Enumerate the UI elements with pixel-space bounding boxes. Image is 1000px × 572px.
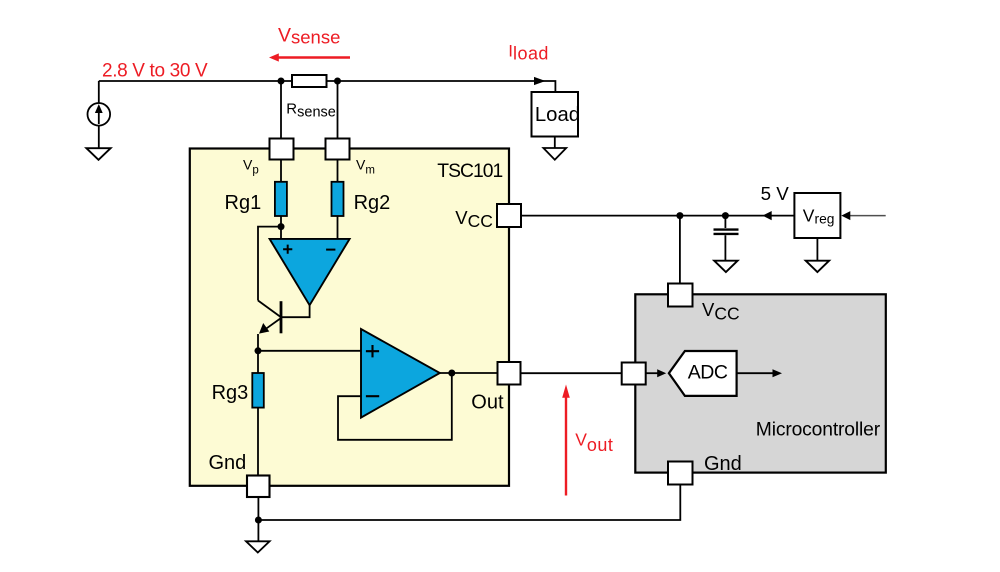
node C (Rg1 / feedback junction) <box>278 223 285 230</box>
svg-text:Vsense: Vsense <box>278 24 340 47</box>
arrow on VCC rail (left) <box>763 211 772 220</box>
wire: uC pin to ADC <box>646 372 659 374</box>
wire: left drop to current source <box>98 81 100 103</box>
wire: node D to op-amp U2 + input <box>258 350 361 352</box>
pin Vm <box>326 139 350 160</box>
microcontroller body <box>635 294 886 472</box>
TSC101 package body <box>190 149 509 486</box>
resistor Rg3 <box>252 373 263 408</box>
svg-text:VCC: VCC <box>702 299 740 323</box>
svg-text:Iload: Iload <box>508 41 549 63</box>
wire: node C jog left and down to transistor <box>258 227 281 301</box>
pin Out <box>498 362 521 385</box>
ground (capacitor) <box>714 261 737 272</box>
svg-text:2.8 V to 30 V: 2.8 V to 30 V <box>102 61 208 82</box>
wire: load to ground <box>554 137 556 149</box>
wire: Rg3 to Gnd pin <box>257 408 259 476</box>
capacitor C1 <box>714 216 739 261</box>
wire: ground bus <box>258 484 680 520</box>
svg-text:Microcontroller: Microcontroller <box>756 420 881 441</box>
svg-text:VCC: VCC <box>455 207 493 231</box>
pin Vp <box>270 139 294 160</box>
wire: input into Vreg from right <box>850 215 886 217</box>
node A (rail / Rsense left) <box>278 78 285 85</box>
wire: VCC rail to Vreg <box>521 215 794 217</box>
node G (VCC / cap branch) <box>722 212 729 219</box>
resistor Rg1 <box>275 182 287 216</box>
node D (Rg3 junction) <box>255 347 262 354</box>
ground (current source) <box>86 148 110 160</box>
svg-text:Load: Load <box>535 104 580 126</box>
wire: rail to Vp pin <box>280 81 282 139</box>
svg-text:Rg3: Rg3 <box>212 382 249 404</box>
svg-text:5 V: 5 V <box>761 183 790 204</box>
ground (system) <box>246 541 270 552</box>
wire: Out pin to uC input pin <box>521 372 622 374</box>
resistor Rg2 <box>332 182 344 216</box>
pin Gnd (microcontroller) <box>668 462 693 485</box>
pin VCC (TSC101) <box>497 204 521 227</box>
wire: Rg2 to op-amp - input <box>337 216 339 240</box>
wire: rail to Vm pin <box>337 81 339 139</box>
node B (rail / Rsense right) <box>334 78 341 85</box>
wire: node D down to Rg3 <box>257 351 259 373</box>
ground (Vreg) <box>806 261 829 272</box>
pin VCC (microcontroller) <box>668 284 693 307</box>
arrow into ADC (right) <box>657 369 666 377</box>
pin ADC input (microcontroller) <box>622 363 646 385</box>
svg-text:Rg1: Rg1 <box>225 192 262 214</box>
svg-text:ADC: ADC <box>688 361 728 383</box>
resistor Rsense <box>292 75 327 87</box>
current source I1 <box>88 103 111 126</box>
Load box <box>532 92 579 137</box>
node H (ground bus) <box>255 517 262 524</box>
svg-text:Rg2: Rg2 <box>354 192 391 214</box>
wire: node F down to uC VCC pin <box>679 216 681 284</box>
node F (VCC / uC branch) <box>676 212 683 219</box>
transistor Q1 <box>258 301 281 334</box>
wire: U2 output to Out pin <box>440 372 498 374</box>
arrow into Vreg (left) <box>841 211 850 220</box>
wire: Vreg to ground <box>816 238 818 261</box>
wire: Vp pin to Rg1 <box>280 160 282 182</box>
wire: Rg1 to op-amp + input <box>280 216 282 240</box>
wire: Vm pin to Rg2 <box>337 160 339 182</box>
arrow on rail toward load <box>534 77 546 85</box>
arrow Vsense (red, left) <box>269 53 350 61</box>
wire: op-amp U1 output to transistor base <box>282 305 310 317</box>
ADC block <box>669 351 737 396</box>
ground (load) <box>543 148 566 160</box>
svg-text:Gnd: Gnd <box>209 452 247 474</box>
svg-text:Out: Out <box>471 391 504 413</box>
arrow Vout (red, up) <box>562 385 570 496</box>
op-amp U1 <box>270 239 350 305</box>
wire: current source to ground <box>98 126 100 148</box>
node E (output / feedback) <box>448 370 455 377</box>
op-amp U2 <box>361 329 440 418</box>
svg-text:TSC101: TSC101 <box>437 161 502 182</box>
wire: U2 feedback loop <box>338 373 452 440</box>
wire: top supply rail <box>99 81 556 92</box>
pin Gnd (TSC101) <box>247 476 270 498</box>
regulator Vreg box <box>794 193 840 238</box>
wire: node H to ground symbol <box>257 520 259 541</box>
wire: transistor emitter down to node D <box>257 334 259 351</box>
svg-text:Gnd: Gnd <box>704 453 742 475</box>
wire: TSC101 Gnd pin to bottom node <box>257 497 259 520</box>
wire: ADC output arrow <box>737 369 782 377</box>
